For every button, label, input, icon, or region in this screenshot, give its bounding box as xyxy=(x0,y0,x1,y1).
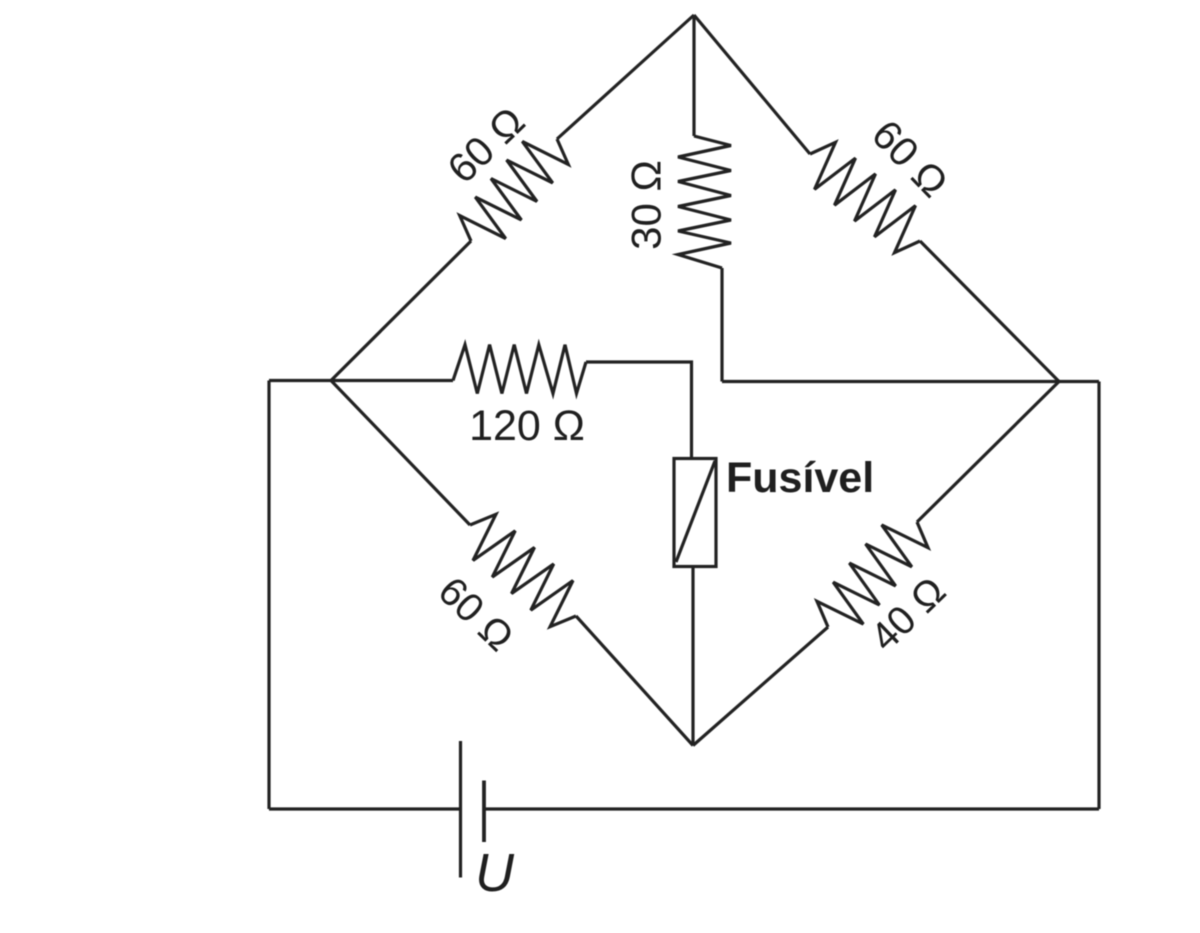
wire R5 to right node xyxy=(917,382,1059,523)
wire mid horizontal to right node and outer right corner xyxy=(722,380,1099,383)
resistor R4 60 ohm bottom-left zigzag xyxy=(470,514,576,626)
wire 120 ohm to fuse top xyxy=(586,362,692,459)
wire left node to R4 xyxy=(331,381,470,526)
svg-text:120 Ω: 120 Ω xyxy=(469,402,585,450)
svg-text:60 Ω: 60 Ω xyxy=(863,111,957,206)
wire bottom node to R5 xyxy=(693,627,828,746)
resistor 120 ohm horizontal zigzag xyxy=(453,345,586,394)
resistor R5 40 ohm bottom-right zigzag xyxy=(817,522,928,627)
svg-text:U: U xyxy=(475,843,515,903)
wire fuse bottom to bottom node xyxy=(691,567,694,746)
svg-text:60 Ω: 60 Ω xyxy=(430,569,522,660)
outer bottom wire left of battery xyxy=(269,807,460,810)
resistor R1 60 ohm top-left zigzag xyxy=(460,139,569,241)
wire left horizontal through left node xyxy=(269,379,453,382)
wire top node to R2 xyxy=(694,15,810,154)
outer left vertical wire xyxy=(267,381,270,810)
wire top node to R1 xyxy=(557,15,694,139)
fuse rectangle xyxy=(674,459,716,567)
wire R4 to bottom node xyxy=(576,616,693,746)
battery short plate xyxy=(482,781,486,843)
svg-text:30 Ω: 30 Ω xyxy=(623,160,670,250)
battery long plate xyxy=(459,741,462,878)
svg-text:Fusível: Fusível xyxy=(726,454,874,502)
wire R1 to left node xyxy=(331,241,471,381)
wire R3 down to mid-right horizontal xyxy=(720,268,723,382)
resistor R3 30 ohm vertical zigzag xyxy=(678,136,731,268)
svg-text:40 Ω: 40 Ω xyxy=(862,569,954,660)
outer bottom wire right of battery xyxy=(484,807,1099,810)
fuse diagonal xyxy=(676,461,715,562)
wire top node down to R3 xyxy=(692,15,695,136)
wire R2 to right node xyxy=(920,241,1059,382)
outer right vertical wire xyxy=(1097,382,1100,810)
resistor R2 60 ohm top-right zigzag xyxy=(810,142,920,252)
